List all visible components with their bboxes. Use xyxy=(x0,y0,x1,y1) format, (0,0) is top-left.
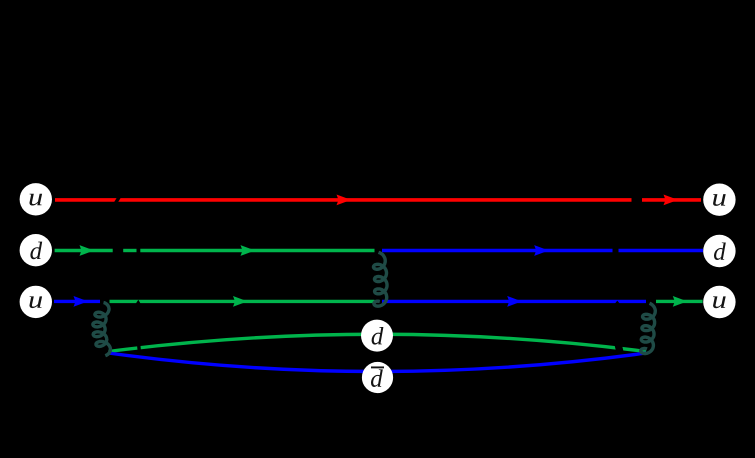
gluon left xyxy=(93,303,111,356)
wire green d-quark segment a xyxy=(55,249,113,252)
arrowhead red right xyxy=(664,195,679,206)
node u left lower xyxy=(20,286,52,318)
arrowhead green u mid xyxy=(233,296,248,307)
arrowhead green d left xyxy=(80,245,95,256)
node d middle xyxy=(361,320,393,352)
wire red u-quark line right segment xyxy=(642,198,701,202)
arrowhead green u right xyxy=(673,296,688,307)
cut slash on green curve left xyxy=(137,344,141,352)
wire green d-quark segment b xyxy=(123,249,136,252)
arrowhead red mid xyxy=(337,195,352,206)
cut notch on green u line xyxy=(136,300,141,304)
cut notch on blue u line xyxy=(615,301,620,304)
node d right xyxy=(703,235,735,267)
node dbar middle xyxy=(362,362,393,393)
wire green d-quark segment c xyxy=(140,249,374,252)
wire green u-quark middle segment xyxy=(110,300,375,303)
cut slash on red line xyxy=(115,193,122,205)
arrowhead blue u left xyxy=(74,296,89,307)
wire blue u-quark right segment xyxy=(382,300,646,303)
wire green d curve of pair xyxy=(109,334,647,351)
cut gap on green curve right xyxy=(618,343,620,353)
wire green u-quark outgoing stub xyxy=(656,300,703,303)
gluon middle xyxy=(374,252,388,306)
node u left xyxy=(20,183,52,215)
wire blue u-quark left stub xyxy=(54,300,100,303)
node d left xyxy=(20,234,52,266)
arrowhead blue u right xyxy=(507,296,522,307)
wire blue d-quark right segment a xyxy=(382,249,613,252)
gluon right xyxy=(641,303,656,353)
wire blue dbar curve of pair xyxy=(109,353,647,372)
arrowhead blue d xyxy=(534,245,549,256)
wire blue d-quark right segment b xyxy=(619,249,704,252)
wire red u-quark line left segment xyxy=(55,198,632,202)
arrowhead green d mid xyxy=(241,245,256,256)
node u right xyxy=(703,184,735,216)
node u right lower xyxy=(703,286,735,318)
